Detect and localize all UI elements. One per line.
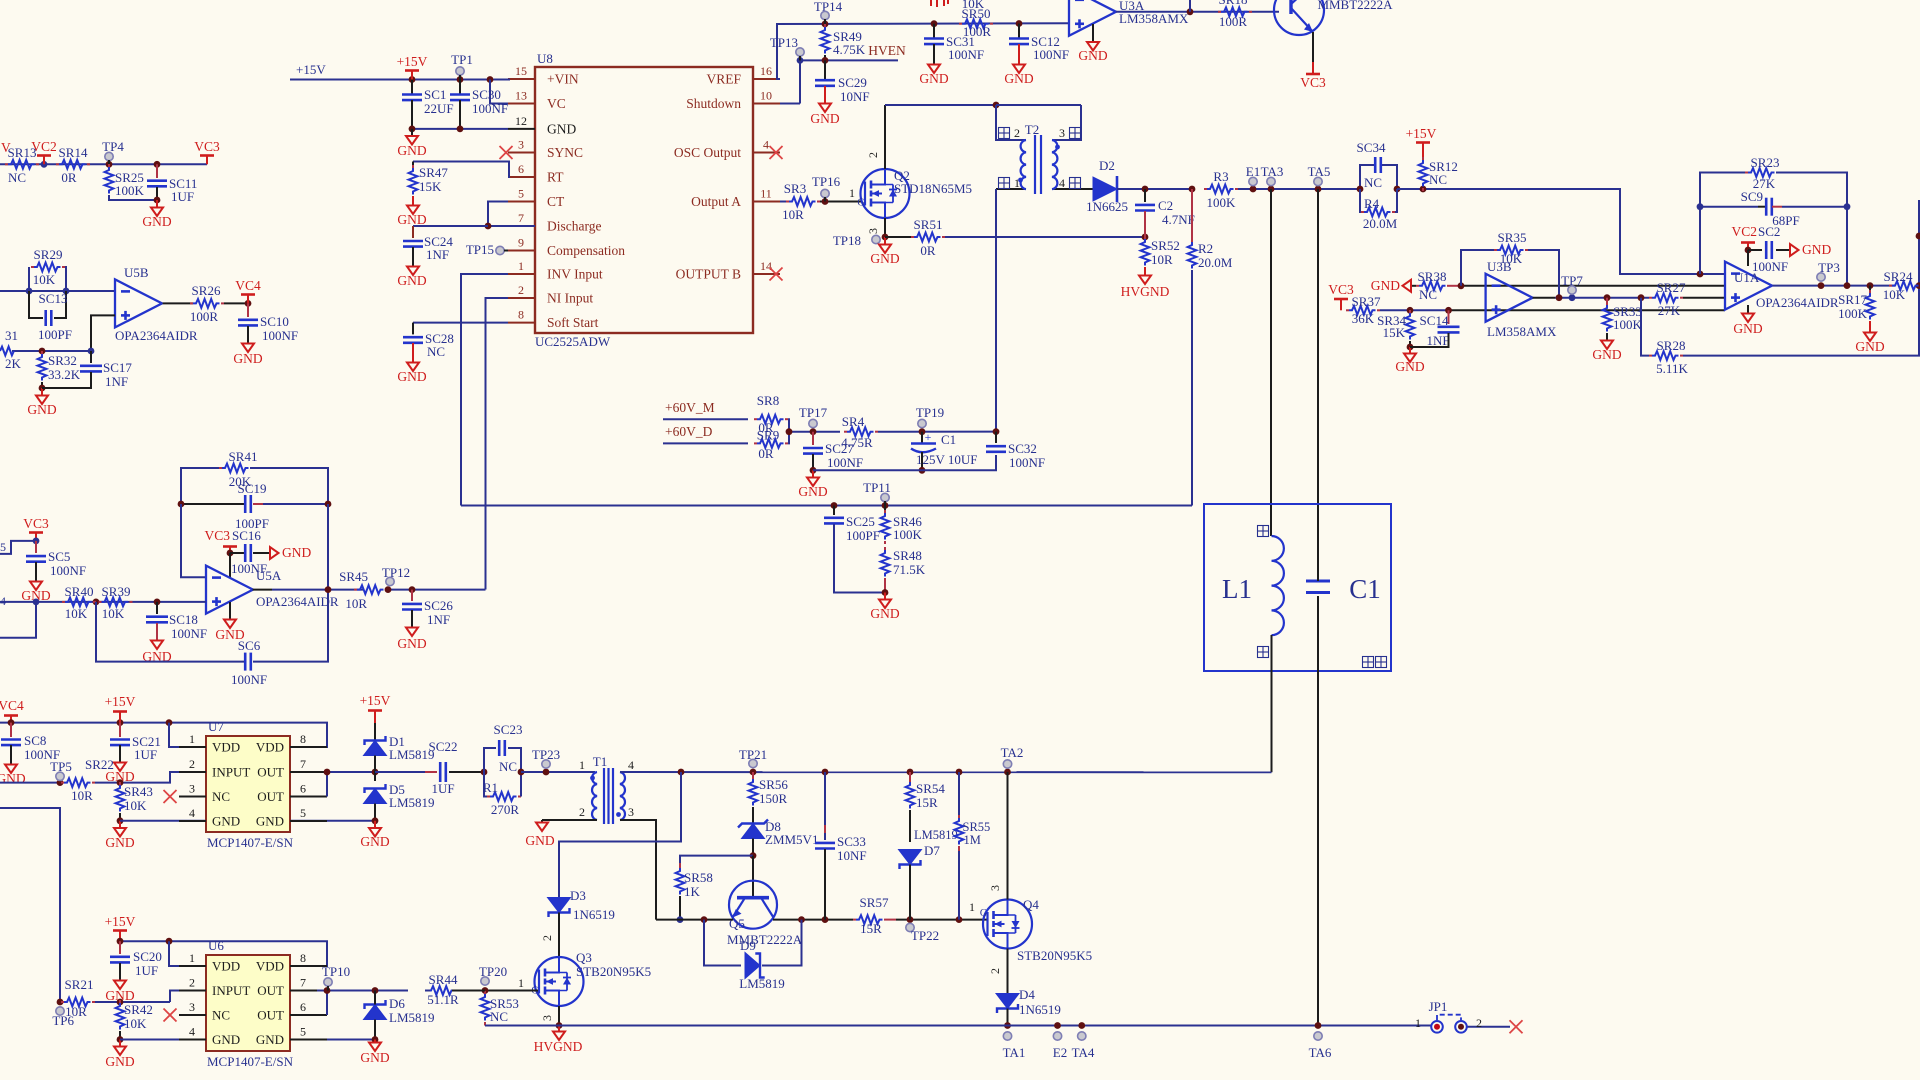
svg-text:SR40: SR40 (65, 584, 94, 599)
svg-text:SC25: SC25 (846, 514, 875, 529)
ground GND below Q2 source (884, 237, 886, 244)
svg-text:GND: GND (397, 636, 426, 651)
svg-text:0R: 0R (61, 170, 77, 185)
svg-text:+60V_M: +60V_M (665, 400, 715, 415)
svg-text:SR22: SR22 (85, 757, 114, 772)
svg-text:100K: 100K (1613, 317, 1643, 332)
wire TA5 down to C1 cap lead (1317, 189, 1319, 578)
svg-text:13: 13 (515, 89, 527, 103)
capacitor SC12 100NF (1018, 24, 1020, 39)
svg-text:1: 1 (1014, 176, 1020, 190)
wire snubber loop from TP21 rail down (559, 772, 681, 898)
U8 pin 7 Discharge (508, 225, 535, 227)
svg-text:125V 10UF: 125V 10UF (916, 452, 978, 467)
svg-text:TP10: TP10 (322, 964, 350, 979)
resistor SR9 0R (757, 439, 783, 448)
off-board box with L1 and C1 (1204, 504, 1391, 671)
U6 pin 1/8 (179, 965, 206, 967)
capacitor SC9 68PF feedback (1700, 206, 1758, 208)
wire U8 pin5 CT to pin7 Discharge (488, 202, 535, 227)
svg-text:VC2: VC2 (1731, 224, 1757, 239)
wire U8 pin10 Shutdown (780, 103, 800, 105)
wire U6 input jog (170, 991, 206, 1003)
svg-text:1NF: 1NF (105, 374, 128, 389)
svg-text:SC1: SC1 (424, 87, 446, 102)
resistor SR28 5.11K to feedback (1641, 298, 1649, 356)
svg-text:GND: GND (27, 402, 56, 417)
ground GND below SC10 (247, 326, 249, 343)
wire SR31 node at left edge (12, 350, 91, 352)
wire T2 4yellow to D2 (1081, 188, 1093, 190)
svg-text:2: 2 (518, 283, 524, 297)
ground GND at T1 pin2 (541, 820, 543, 822)
resistor SR39 10K (102, 598, 129, 607)
svg-text:10K: 10K (102, 606, 125, 621)
svg-text:SR38: SR38 (1418, 269, 1447, 284)
wire D2 cathode node (1117, 188, 1192, 190)
svg-text:20.0M: 20.0M (1363, 216, 1398, 231)
ground GND below SC27 (810, 467, 817, 474)
IC U6 MCP1407-E/SN (206, 955, 290, 1051)
svg-text:VDD: VDD (256, 740, 284, 755)
svg-text:GND: GND (1733, 321, 1762, 336)
U8 pin 11 Output A (753, 201, 780, 203)
svg-text:NC: NC (490, 1009, 508, 1024)
resistor SR14 0R (59, 160, 86, 169)
svg-text:VDD: VDD (212, 740, 240, 755)
op-amp U5B OPA2364AIDR (115, 279, 162, 327)
svg-text:5: 5 (518, 187, 524, 201)
wire U5A output row (253, 589, 272, 591)
diode D5 LM5819 (374, 772, 376, 781)
wire into SR29/SC13 node from left (0, 290, 115, 292)
svg-text:MCP1407-E/SN: MCP1407-E/SN (207, 835, 294, 850)
ground GND below SR34 (1409, 347, 1411, 353)
svg-text:SR27: SR27 (1657, 280, 1686, 295)
svg-text:GND: GND (397, 273, 426, 288)
svg-text:8: 8 (518, 308, 524, 322)
svg-text:51.1R: 51.1R (427, 992, 459, 1007)
wire U5B output to SR26 (163, 302, 193, 304)
svg-text:SR32: SR32 (48, 353, 77, 368)
resistor SR24 10K (1892, 281, 1919, 290)
resistor SR47 15K (413, 162, 509, 178)
wire U3A output (1116, 11, 1279, 13)
resistor SR42 10K (116, 1003, 125, 1030)
svg-text:NC: NC (427, 344, 445, 359)
svg-text:4: 4 (763, 138, 769, 152)
capacitor SC5 100NF (0, 541, 36, 554)
wire T1 pin4 to TP21 rail (620, 771, 1272, 773)
wire to T1 pin1 (521, 771, 595, 773)
svg-text:+60V_D: +60V_D (665, 424, 713, 439)
no-connect X on U6 pin3 (164, 1009, 177, 1022)
wire R3 to SC34/R4 (1238, 188, 1360, 190)
capacitor SC13 100PF (29, 291, 43, 318)
wire U3B minus input node (1461, 285, 1725, 287)
svg-text:OPA2364AIDR: OPA2364AIDR (1756, 295, 1839, 310)
ground GND below SC29 (824, 86, 826, 103)
label off-board (1363, 657, 1374, 668)
svg-text:31: 31 (5, 328, 18, 343)
svg-text:NI Input: NI Input (547, 291, 593, 306)
resistor SR18 100R (1221, 7, 1248, 16)
wire Q1 emitter to VC3 (1312, 32, 1314, 62)
wire left feed to SR21 column (0, 808, 60, 1002)
svg-text:1UF: 1UF (171, 189, 194, 204)
resistor SR3 10R (780, 201, 786, 203)
svg-text:1NF: 1NF (1426, 333, 1449, 348)
svg-text:0R: 0R (920, 243, 936, 258)
svg-text:MMBT2222A: MMBT2222A (727, 932, 803, 947)
svg-text:150R: 150R (759, 791, 788, 806)
svg-text:2: 2 (189, 757, 195, 771)
svg-text:LM5819: LM5819 (389, 1010, 435, 1025)
resistor SR52 10R (1141, 239, 1150, 266)
wire Q5 base from D8 (752, 856, 754, 897)
svg-text:INV Input: INV Input (547, 267, 603, 282)
no-connect X on U8 pin 14 OUTPUT B (770, 268, 783, 281)
wire U8 pin2 NI Input down (486, 298, 509, 590)
resistor SR21 10R (64, 998, 91, 1007)
svg-text:NC: NC (499, 759, 517, 774)
svg-text:U6: U6 (208, 938, 224, 953)
wire +60V_M (663, 418, 748, 420)
svg-text:6: 6 (300, 782, 306, 796)
wire stub cut at top from U3A output node (1189, 0, 1191, 12)
svg-text:GND: GND (1592, 347, 1621, 362)
wire plus-input row with SR40 SR39 (0, 601, 206, 603)
wire stub from SC5 GND junction to left edge (0, 602, 36, 638)
ground GND below SC21 (114, 763, 126, 772)
capacitor SC10 100NF (247, 303, 249, 317)
capacitor SC20 1UF (119, 941, 121, 954)
svg-text:GND: GND (798, 484, 827, 499)
svg-text:1N6519: 1N6519 (573, 907, 615, 922)
svg-text:10K: 10K (1883, 287, 1906, 302)
svg-text:NC: NC (1429, 172, 1447, 187)
svg-text:SC29: SC29 (838, 75, 867, 90)
svg-text:GND: GND (212, 1032, 240, 1047)
resistor SR40 10K (65, 598, 92, 607)
wire Q5 collector row (773, 919, 853, 921)
svg-text:C1: C1 (1349, 574, 1381, 604)
svg-text:4: 4 (0, 594, 6, 608)
svg-text:GND: GND (1078, 48, 1107, 63)
ground GND below SC20 (114, 981, 126, 990)
svg-text:SR26: SR26 (192, 283, 221, 298)
transistor Q1 MMBT2222A (1274, 0, 1324, 35)
svg-text:R4: R4 (1364, 196, 1380, 211)
svg-text:TA1: TA1 (1003, 1045, 1026, 1060)
resistor SR56 150R (752, 772, 754, 779)
svg-text:SC9: SC9 (1741, 189, 1763, 204)
svg-text:SR4: SR4 (842, 414, 865, 429)
svg-text:3: 3 (518, 138, 524, 152)
capacitor SC33 10NF (824, 772, 826, 825)
svg-text:GND: GND (1395, 359, 1424, 374)
resistor SR51 0R (885, 236, 911, 238)
svg-text:OUT: OUT (257, 1008, 284, 1023)
svg-text:+15V: +15V (1406, 126, 1437, 141)
svg-text:3: 3 (189, 782, 195, 796)
svg-text:+15V: +15V (105, 914, 136, 929)
svg-text:10R: 10R (782, 207, 804, 222)
svg-text:1UF: 1UF (134, 747, 157, 762)
svg-text:SC23: SC23 (494, 722, 523, 737)
svg-text:VC3: VC3 (23, 516, 49, 531)
transistor Q5 MMBT2222A (729, 881, 777, 929)
diode D3 1N6519 (548, 898, 571, 913)
svg-text:10NF: 10NF (840, 89, 870, 104)
svg-text:R2: R2 (1198, 241, 1213, 256)
svg-text:T2: T2 (1025, 122, 1039, 137)
svg-text:36K: 36K (1352, 311, 1375, 326)
capacitor SC27 100NF (812, 432, 814, 445)
svg-text:10K: 10K (33, 272, 56, 287)
ground GND below SC1 (411, 129, 413, 136)
svg-text:RT: RT (547, 170, 564, 185)
wire HVGND bottom rail (485, 1025, 1432, 1027)
resistor SR4 4.75R (847, 427, 873, 436)
resistor R3 100K (1207, 185, 1234, 194)
wire SR44 into Q3 gate row (425, 990, 430, 992)
svg-text:100PF: 100PF (38, 327, 72, 342)
U6 pin 2/7 (179, 990, 206, 992)
ground GND below SC5 (30, 582, 42, 591)
U8 pin 12 GND (508, 128, 535, 130)
capacitor SC21 1UF (119, 723, 121, 737)
svg-text:1: 1 (518, 259, 524, 273)
capacitor SC8 100NF (10, 723, 12, 737)
wire HV sense to U3B section (1490, 189, 1725, 274)
svg-text:2: 2 (866, 152, 880, 158)
svg-text:1NF: 1NF (427, 612, 450, 627)
capacitor SC24 1NF (413, 225, 488, 227)
svg-text:OPA2364AIDR: OPA2364AIDR (256, 594, 339, 609)
resistor SR32 33.2K (38, 354, 47, 380)
svg-text:LM5819: LM5819 (739, 976, 785, 991)
resistor SR41 20K feedback (181, 468, 222, 504)
svg-text:1NF: 1NF (426, 247, 449, 262)
ground GND below SR48 (884, 593, 886, 600)
svg-text:TA6: TA6 (1309, 1045, 1332, 1060)
svg-text:Q5: Q5 (729, 916, 745, 931)
svg-text:15K: 15K (419, 179, 442, 194)
svg-text:4.7NF: 4.7NF (1162, 212, 1195, 227)
svg-text:VC: VC (547, 96, 566, 111)
cut-off red symbol at top edge (931, 0, 948, 7)
svg-text:SC19: SC19 (238, 481, 267, 496)
ground GND below SC31 (933, 44, 935, 64)
U6 pin 4/5 (179, 1039, 206, 1041)
svg-text:U5B: U5B (124, 265, 149, 280)
svg-text:4: 4 (189, 806, 195, 820)
no-connect X on U8 pin 4 OSC Output (770, 146, 783, 159)
capacitor SC34 NC (1360, 165, 1397, 189)
wire +15V rail of U7 (0, 723, 327, 747)
ground GND below SC24 (412, 247, 414, 266)
svg-text:SC22: SC22 (429, 739, 458, 754)
svg-text:NC: NC (212, 789, 230, 804)
svg-text:5.11K: 5.11K (1656, 361, 1688, 376)
svg-text:2: 2 (579, 805, 585, 819)
wire SR3 to Q2 gate (820, 201, 861, 203)
resistor SR23 27K feedback (1700, 173, 1748, 275)
resistor SR57 15R (856, 915, 882, 924)
svg-text:SR39: SR39 (102, 584, 131, 599)
svg-text:G: G (980, 908, 987, 919)
capacitor SC22 1UF in series (375, 771, 425, 773)
wire U3B feedback up and over SR35 (1461, 250, 1494, 286)
ground GND below SR17 (1869, 321, 1871, 332)
svg-text:D9: D9 (740, 938, 756, 953)
svg-text:HVGND: HVGND (1121, 284, 1170, 299)
svg-text:C1: C1 (941, 432, 956, 447)
ground GND at D6 anode (374, 1040, 376, 1043)
wire VC2 to U1A power pin (1747, 250, 1749, 266)
svg-text:100NF: 100NF (827, 455, 863, 470)
svg-text:6: 6 (300, 1000, 306, 1014)
resistor SR58 1K (679, 863, 681, 868)
ground GND below SC11 (156, 200, 158, 207)
U8 pin 1 INV Input (508, 273, 535, 275)
inductor L1 (1272, 536, 1284, 635)
svg-text:1N6625: 1N6625 (1086, 199, 1128, 214)
svg-text:Discharge: Discharge (547, 219, 601, 234)
svg-text:10R: 10R (71, 788, 93, 803)
svg-text:VDD: VDD (212, 959, 240, 974)
resistor SR48 71.5K (881, 550, 890, 576)
svg-text:SR28: SR28 (1657, 338, 1686, 353)
svg-text:7: 7 (518, 211, 524, 225)
ground GND below SR43 (119, 821, 121, 828)
wire SR37 to U3B plus input (1380, 309, 1449, 311)
U8 pin 10 Shutdown (753, 103, 780, 105)
svg-text:SYNC: SYNC (547, 145, 583, 160)
svg-text:TP17: TP17 (799, 405, 828, 420)
ground GND below SR47 (412, 196, 414, 205)
svg-text:U1A: U1A (1734, 270, 1760, 285)
svg-text:3: 3 (189, 1000, 195, 1014)
IC U8 UC2525ADW body (535, 67, 753, 333)
wire GND row to U8 pin 12 (412, 128, 508, 130)
capacitor SC25 100PF (833, 506, 835, 516)
svg-text:Q4: Q4 (1023, 897, 1039, 912)
svg-text:SR8: SR8 (757, 393, 779, 408)
testpoint TA4 (1078, 1032, 1086, 1040)
svg-text:GND: GND (360, 1050, 389, 1065)
svg-text:LM5819: LM5819 (914, 828, 958, 842)
IC U7 MCP1407-E/SN (206, 736, 290, 832)
svg-text:2: 2 (1476, 1016, 1482, 1030)
op-amp U1A OPA2364AIDR (1725, 262, 1772, 310)
svg-text:SC34: SC34 (1357, 140, 1386, 155)
wire +60V_D (663, 442, 748, 444)
svg-text:GND: GND (525, 833, 554, 848)
testpoint TP6 (56, 1007, 64, 1015)
svg-text:15R: 15R (916, 795, 938, 810)
svg-text:SC6: SC6 (238, 638, 261, 653)
svg-text:SR47: SR47 (419, 165, 448, 180)
svg-text:NC: NC (1419, 287, 1437, 302)
svg-text:2: 2 (988, 968, 1002, 974)
testpoint E2 (1053, 1032, 1061, 1040)
svg-text:+: + (925, 430, 932, 444)
svg-text:SC30: SC30 (472, 87, 501, 102)
svg-text:SR41: SR41 (229, 449, 258, 464)
resistor SR45 10R (357, 585, 383, 594)
wire D3 cathode to Q3 drain (558, 913, 560, 958)
capacitor SC14 1NF (1448, 310, 1450, 324)
svg-text:SC17: SC17 (103, 360, 132, 375)
ground GND below SC8 (5, 765, 17, 774)
svg-text:33.2K: 33.2K (48, 367, 81, 382)
svg-text:71.5K: 71.5K (893, 562, 926, 577)
svg-text:100K: 100K (893, 527, 923, 542)
U8 pin 2 NI Input (508, 297, 535, 299)
svg-text:10R: 10R (1151, 252, 1173, 267)
svg-text:ZMM5V1: ZMM5V1 (765, 832, 818, 847)
diode D2 1N6625 (1093, 177, 1117, 201)
svg-text:D4: D4 (1019, 987, 1035, 1002)
wire U3B output (1533, 297, 1555, 299)
svg-text:100NF: 100NF (50, 563, 86, 578)
svg-text:+VIN: +VIN (547, 72, 579, 87)
wire SR51 to snubber C2/SR52 (945, 236, 1145, 238)
svg-text:NC: NC (1364, 175, 1382, 190)
power symbol HVGND below SR52 (1144, 267, 1146, 275)
svg-text:0R: 0R (758, 446, 774, 461)
ground GND below SR33 (1606, 333, 1608, 340)
ground GND below U3A (1092, 24, 1094, 42)
svg-text:U8: U8 (537, 51, 553, 66)
capacitor SC29 10NF (824, 60, 826, 80)
svg-text:8: 8 (300, 951, 306, 965)
svg-text:5: 5 (300, 806, 306, 820)
wire SR4 to C1 +60V node (878, 431, 996, 433)
svg-text:VDD: VDD (256, 959, 284, 974)
svg-text:10K: 10K (124, 1016, 147, 1031)
resistor SR37 36K (1349, 306, 1376, 315)
capacitor SC26 1NF (411, 590, 413, 601)
svg-text:SC10: SC10 (260, 314, 289, 329)
svg-text:SR52: SR52 (1151, 238, 1180, 253)
resistor SR33 100K (1606, 298, 1608, 305)
resistor SR35 10K (1497, 246, 1524, 255)
svg-text:U7: U7 (208, 719, 224, 734)
svg-text:14: 14 (760, 259, 772, 273)
svg-text:GND: GND (547, 121, 576, 136)
svg-text:Output A: Output A (691, 194, 741, 209)
wire T2 top link (996, 104, 1081, 106)
svg-text:SC8: SC8 (24, 733, 46, 748)
resistor SR29 10K (28, 267, 30, 291)
svg-text:VC3: VC3 (1328, 282, 1354, 297)
op-amp U3A LM358AMX (1069, 0, 1116, 36)
svg-text:1K: 1K (684, 884, 701, 899)
svg-text:U5A: U5A (256, 568, 282, 583)
capacitor SC23 NC parallel (484, 748, 496, 772)
svg-text:U3B: U3B (1487, 259, 1512, 274)
svg-text:SC2: SC2 (1758, 224, 1780, 239)
svg-text:TP15: TP15 (466, 242, 494, 257)
svg-text:4: 4 (628, 758, 634, 772)
svg-text:3: 3 (540, 1015, 554, 1021)
U8 pin 4 OSC Output (753, 152, 780, 154)
svg-text:INPUT: INPUT (212, 983, 250, 998)
svg-text:GND: GND (105, 835, 134, 850)
